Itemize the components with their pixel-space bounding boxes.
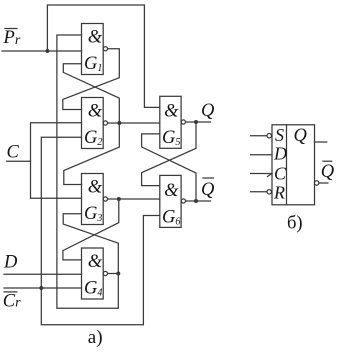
gate G3 body — [82, 174, 104, 225]
svg-text:&: & — [88, 252, 103, 272]
svg-text:Pr: Pr — [3, 28, 21, 48]
svg-text:D: D — [3, 252, 18, 272]
block U1 body — [272, 125, 315, 205]
svg-text:G2: G2 — [84, 128, 102, 148]
gate G2 body — [82, 98, 104, 149]
node Qbar junction — [194, 199, 198, 203]
svg-text:G4: G4 — [84, 278, 102, 298]
svg-text:Q: Q — [321, 162, 335, 182]
svg-text:б): б) — [287, 213, 303, 233]
wire G4 feedback to G1 input 1 — [57, 35, 118, 308]
node G2 output junction — [117, 121, 121, 125]
gate G5 body — [160, 96, 181, 148]
node G3 output junction — [117, 197, 121, 201]
label Cr overline — [4, 291, 17, 293]
svg-text:C: C — [274, 164, 287, 184]
wire D input — [4, 273, 82, 275]
svg-text:S: S — [275, 125, 284, 145]
wire Qbar output — [186, 200, 211, 202]
svg-text:&: & — [164, 181, 179, 201]
svg-text:G6: G6 — [162, 207, 180, 227]
wire G2 output to G5 input 2 — [108, 122, 160, 124]
svg-text:&: & — [88, 178, 103, 198]
svg-text:C: C — [7, 143, 20, 163]
svg-text:G5: G5 — [162, 128, 180, 148]
wire G2 feedback to G1 input 3 — [63, 64, 119, 123]
wire Pr to G5 top route — [47, 5, 159, 107]
svg-text:R: R — [273, 182, 285, 202]
wire G2 output to G3 input 1 — [64, 123, 120, 185]
pin C dynamic — [251, 173, 272, 175]
svg-text:Q: Q — [294, 126, 308, 146]
wire C branch to G2 and G3 — [31, 123, 82, 199]
wire C input — [7, 160, 31, 162]
gate G1 body — [82, 24, 104, 75]
wire Pr input — [2, 50, 82, 52]
svg-text:G3: G3 — [84, 204, 102, 224]
wire Q feedback to G6 input 1 — [142, 122, 196, 186]
wire Cr input — [4, 287, 82, 289]
wire Q output — [186, 121, 211, 123]
svg-text:а): а) — [88, 327, 103, 348]
wire G1 output to G2 input 1 — [63, 49, 120, 110]
svg-text:G1: G1 — [84, 54, 102, 74]
pin S — [251, 135, 267, 137]
svg-text:Cr: Cr — [3, 291, 21, 311]
node Q junction — [194, 120, 198, 124]
svg-text:Q: Q — [201, 101, 215, 121]
wire Qbar feedback to G5 input 3 — [142, 134, 196, 201]
label Qbar overline (left circuit) — [203, 177, 214, 179]
wire Cr branch to G2 input 3 and G6 input 3 — [41, 137, 160, 325]
wire G3 output to G6 input 2 — [108, 198, 160, 200]
svg-text:&: & — [164, 101, 179, 121]
pin D — [251, 154, 272, 156]
pin Qbar — [315, 181, 319, 185]
svg-text:&: & — [88, 28, 103, 48]
label Pr overline — [5, 28, 17, 30]
gate G4 body — [82, 248, 104, 299]
svg-text:Q: Q — [201, 180, 215, 200]
label Qbar overline (block) — [323, 160, 332, 162]
svg-text:&: & — [88, 102, 103, 122]
pin R — [251, 191, 267, 193]
node G4 output junction — [116, 272, 120, 276]
pin Q — [315, 141, 327, 143]
node Cr junction — [39, 286, 43, 290]
node Pr junction — [45, 49, 49, 53]
svg-text:D: D — [273, 144, 287, 164]
wire G4 output — [108, 273, 119, 275]
wire G4 output to G3 input 3 — [63, 214, 118, 274]
gate G6 body — [160, 175, 181, 227]
wire G3 output to G4 input 1 — [63, 199, 119, 260]
